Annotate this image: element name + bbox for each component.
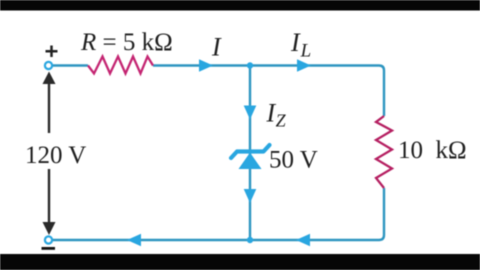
source up arrow shaft bbox=[48, 83, 50, 133]
source down arrow shaft bbox=[48, 169, 50, 223]
wire top (node + terminal to top-right corner, into right branch) bbox=[52, 64, 88, 66]
svg-text:10 kΩ: 10 kΩ bbox=[398, 137, 467, 164]
current arrow IZ (down) on middle branch bbox=[244, 106, 257, 120]
minus sign bbox=[42, 247, 56, 250]
wire middle branch (node A down to bottom node) bbox=[249, 66, 251, 240]
source down arrow head bbox=[43, 222, 56, 235]
letterbox bar top bbox=[0, 0, 480, 11]
zener diode D1 cathode bar with bent ends bbox=[231, 145, 270, 158]
current arrow (left) on bottom wire right segment bbox=[296, 234, 310, 247]
svg-text:I: I bbox=[211, 33, 222, 62]
current arrow (left) on bottom wire left segment bbox=[127, 234, 141, 247]
letterbox bar bottom bbox=[0, 254, 480, 270]
terminal - (bottom left open circle) bbox=[45, 236, 52, 243]
plus sign bbox=[46, 46, 58, 58]
zener diode D1 anode triangle bbox=[239, 153, 262, 170]
current arrow I (right) on top wire bbox=[199, 59, 213, 72]
terminal + (top left open circle) bbox=[45, 62, 52, 69]
wire top (resistor to top-right corner, into right branch) bbox=[153, 66, 384, 117]
source up arrow head bbox=[43, 72, 56, 85]
node junction dot (bottom middle) bbox=[247, 237, 253, 243]
node A junction dot (top middle) bbox=[247, 62, 253, 68]
svg-text:50 V: 50 V bbox=[269, 147, 318, 174]
svg-text:R = 5 kΩ: R = 5 kΩ bbox=[80, 29, 173, 56]
current arrow IL (right) on top wire bbox=[297, 59, 311, 72]
svg-text:120 V: 120 V bbox=[25, 142, 86, 169]
current arrow (down) below zener on middle branch bbox=[244, 189, 257, 203]
resistor R = 5 kOhm (horizontal zigzag) bbox=[88, 57, 153, 74]
resistor 10 kOhm (vertical zigzag, right branch) bbox=[376, 116, 392, 188]
wire right branch lower + bottom wire back to - terminal bbox=[52, 188, 384, 240]
